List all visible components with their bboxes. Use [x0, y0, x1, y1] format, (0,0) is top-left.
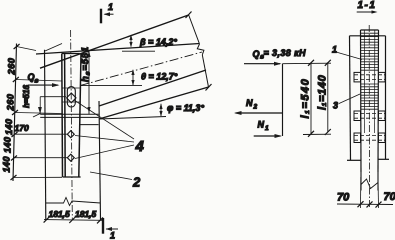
- horizontal member line 1: [40, 113, 98, 115]
- bolt row 3 left nut: [354, 133, 361, 143]
- section outer plate top edge: [350, 35, 386, 37]
- brace cut line lower segment: [202, 55, 208, 87]
- leader to 4 from diamond2: [75, 145, 134, 159]
- gusset plate right edge: [99, 101, 101, 220]
- section inner member left edge: [360, 30, 363, 172]
- section bottom dim extension left: [360, 177, 362, 208]
- svg-text:260: 260: [7, 57, 17, 75]
- theta axis dash-dot: [80, 52, 202, 86]
- svg-text:2: 2: [253, 104, 258, 111]
- slotted hole oval: [67, 87, 75, 107]
- bolt row 3 shaft dashes: [354, 135, 385, 140]
- bolt row 2 shaft dashes: [354, 113, 385, 118]
- svg-text:170: 170: [15, 123, 29, 133]
- lower brace bottom edge W5: [99, 87, 209, 119]
- svg-text:181,5: 181,5: [49, 209, 71, 219]
- section bottom dim extension right: [377, 177, 380, 208]
- bolt diamond 2: [67, 154, 74, 161]
- member hatch rungs: [361, 33, 379, 109]
- section outer plate bottom right: [378, 158, 389, 160]
- Qv force arrow: [28, 84, 58, 86]
- svg-text:1: 1: [110, 231, 115, 240]
- svg-text:2: 2: [132, 175, 141, 190]
- chain extension line tick6 to column bottom: [13, 176, 62, 178]
- svg-text:l₁=540: l₁=540: [300, 78, 312, 119]
- end tick at D1: [186, 12, 192, 19]
- chain extension line tick1 to node: [17, 47, 37, 51]
- svg-text:70: 70: [337, 192, 350, 204]
- section mark top bar: [100, 9, 102, 24]
- section dim tick center: [367, 201, 373, 207]
- bolt row 3 right nut: [379, 133, 386, 143]
- svg-text:181,5: 181,5: [75, 209, 97, 219]
- label 1 leader (right view): [336, 52, 362, 60]
- svg-text:φ = 11,3°: φ = 11,3°: [167, 103, 204, 113]
- h=516 horizontal line: [40, 96, 66, 98]
- end tick W5: [206, 84, 212, 91]
- chain tick y134.2: [12, 132, 18, 137]
- bolt row 1 right nut: [379, 72, 386, 82]
- column bottom edge: [63, 176, 81, 178]
- beta angle arc line: [122, 50, 155, 52]
- break zigzag: [197, 44, 204, 55]
- theta angle arrow: [132, 70, 134, 85]
- svg-text:4: 4: [135, 138, 145, 155]
- bottom dim tick center: [69, 217, 75, 223]
- force reference top line: [283, 62, 332, 65]
- gusset plate left edge: [45, 50, 46, 220]
- theta ref horizontal: [80, 85, 142, 87]
- leader to 2: [90, 172, 132, 180]
- horizontal member line 3: [80, 124, 99, 126]
- bottom dimension line: [44, 219, 102, 222]
- force bottom reference line: [303, 133, 331, 135]
- svg-text:1: 1: [265, 125, 269, 132]
- section dim tick left: [358, 201, 364, 207]
- section mark top arrow: [105, 13, 114, 15]
- left dimension chain line: [13, 44, 17, 182]
- svg-text:70: 70: [384, 191, 395, 203]
- bolt row 1 left nut: [354, 72, 361, 82]
- top brace top edge D1: [40, 15, 189, 68]
- section outer plate right edge: [385, 36, 387, 160]
- column centerline dash-dot: [71, 30, 73, 220]
- bolt diamond in oval: [67, 93, 76, 103]
- svg-text:в: в: [35, 78, 39, 85]
- section member inner rail right: [374, 30, 376, 133]
- dim line l1=540: [310, 62, 312, 134]
- beta angle arrow: [130, 36, 132, 47]
- section mark bottom arrow: [106, 228, 118, 230]
- section dim tick right: [376, 202, 382, 208]
- chain extension line tick4 to diamond1: [15, 133, 68, 135]
- short corner line: [45, 44, 62, 52]
- column right edge: [79, 54, 81, 178]
- leader to 4 from node diamond: [74, 100, 134, 139]
- section inner member top edge: [361, 29, 379, 31]
- dim line l1=140: [327, 62, 329, 132]
- bolt line across column y102: [62, 101, 80, 103]
- svg-text:β = 14,2°: β = 14,2°: [139, 37, 177, 47]
- svg-text:θ = 12,7°: θ = 12,7°: [141, 72, 178, 82]
- svg-text:h=516: h=516: [22, 85, 31, 108]
- bolt diamond 1: [67, 131, 74, 138]
- chain tick y79.5: [13, 77, 19, 82]
- bolt row 2 right nut: [379, 111, 386, 121]
- svg-text:260: 260: [6, 93, 16, 111]
- hv=581 dimension line: [88, 50, 90, 114]
- column left flange line a: [61, 54, 64, 178]
- phi angle arrow: [160, 104, 162, 116]
- column top edge: [62, 53, 80, 55]
- section member break zigzag: [361, 179, 378, 189]
- bolt row 2 left nut: [354, 111, 361, 121]
- chain tick y112.5: [12, 110, 18, 115]
- title underline: [357, 11, 376, 13]
- h=516 arrow: [33, 114, 40, 118]
- chain extension line tick5 to diamond2: [14, 157, 67, 159]
- h=516 dim line: [39, 97, 41, 114]
- svg-text:3: 3: [333, 101, 338, 111]
- svg-text:140: 140: [2, 156, 12, 173]
- section outer plate bottom left: [347, 159, 361, 161]
- top brace lower line A: [36, 44, 200, 55]
- phi ref horizontal: [99, 117, 166, 120]
- svg-text:1-1: 1-1: [358, 0, 377, 11]
- force Qv arrow: [244, 63, 280, 65]
- section centerline dash-dot: [368, 25, 370, 207]
- bolt line across column y88: [62, 87, 80, 89]
- horizontal member line 2: [40, 116, 98, 118]
- brace cut line upper segment: [189, 15, 200, 45]
- section mark bottom bar: [102, 218, 104, 234]
- svg-text:N: N: [258, 120, 265, 130]
- chain tick y157.7: [11, 156, 17, 161]
- svg-text:140: 140: [4, 118, 14, 135]
- bottom dim tick left: [44, 217, 50, 223]
- leader to 4 from diamond1: [75, 136, 134, 143]
- section outer plate left edge: [350, 36, 351, 161]
- bolt row 1 shaft dashes: [354, 75, 385, 80]
- column left flange line b: [64, 54, 67, 178]
- label 3 leader (right view): [339, 94, 360, 104]
- chain tick y46.5: [14, 44, 20, 49]
- svg-text:Q: Q: [253, 49, 260, 59]
- N1 arrow: [254, 135, 281, 137]
- svg-text:N: N: [246, 98, 253, 108]
- svg-text:hв=581: hв=581: [80, 46, 91, 82]
- bottom break line with zigzag: [46, 198, 101, 206]
- N2 arrow: [236, 112, 283, 114]
- chain tick y177.5: [11, 175, 17, 180]
- lower brace top edge W4: [99, 70, 206, 106]
- svg-text:Q: Q: [28, 72, 35, 82]
- chain extension line tick3: [16, 113, 62, 114]
- bottom dim tick right: [97, 217, 103, 223]
- force diagram vertical line: [282, 64, 284, 136]
- section bottom dim line: [337, 203, 393, 206]
- svg-text:1: 1: [108, 2, 113, 12]
- section member inner rail left: [363, 30, 365, 133]
- section inner member right edge: [377, 30, 380, 172]
- svg-text:= 3,38 кН: = 3,38 кН: [264, 48, 307, 58]
- svg-text:140: 140: [3, 136, 13, 153]
- svg-text:1: 1: [332, 45, 337, 55]
- svg-text:l₁=140: l₁=140: [317, 74, 329, 110]
- chain extension line tick2: [16, 80, 62, 82]
